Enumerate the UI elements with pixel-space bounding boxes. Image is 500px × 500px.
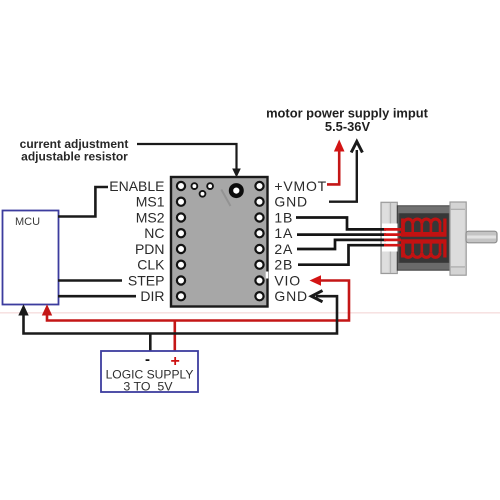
wire 1B to motor [296,218,386,230]
motor bottom coil side bars [401,240,404,258]
motor top coil winding ticks [404,224,440,233]
wire 2B to motor [298,245,386,265]
label: current adjustment adjustable resistor [20,137,129,164]
svg-text:STEP: STEP [128,273,165,289]
motor top coil side bars [401,219,404,237]
chip pins left column (pins 1-8) [177,182,185,300]
logic supply - lead (black) [149,334,152,352]
svg-text:VIO: VIO [274,273,301,289]
motor right flange [450,202,466,275]
label: motor power supply imput 5.5-36V [266,106,429,134]
svg-text:ENABLE: ENABLE [109,178,164,194]
wire 1A to motor [297,233,386,236]
svg-text:MS2: MS2 [136,210,165,226]
svg-text:3 TO 5V: 3 TO 5V [123,380,173,394]
wire GND to power supply (black) [329,150,357,202]
svg-text:-: - [145,351,150,368]
MCU box [3,211,59,305]
wire +VMOT to power supply (red) [327,149,339,185]
wire MCU to STEP [58,279,122,282]
stepper motor [381,202,497,275]
chip pins right column (pins 9-16) [255,182,263,300]
motor left flange [381,202,397,273]
motor inner lamination [399,213,449,262]
wire VIO to logic supply + (red) [47,281,349,321]
motor bottom coil scallop edge [404,253,440,258]
wire MCU to DIR [58,295,136,298]
left pin labels [109,178,165,304]
black arrowhead up (motor power -) [351,142,362,153]
svg-text:1B: 1B [274,210,293,226]
svg-text:MCU: MCU [15,216,40,228]
potentiometer slot mark [221,190,230,207]
svg-text:1A: 1A [274,225,293,241]
motor body [397,206,450,270]
logic supply + lead (red) [174,321,177,352]
wire MCU to ENABLE [58,187,108,217]
wire 2A to motor [297,240,386,249]
motor bottom coil winding ticks [404,243,440,253]
svg-text:5.5-36V: 5.5-36V [325,119,371,134]
potentiometer (current adjust) [231,185,242,196]
LOGIC SUPPLY box [101,351,198,392]
svg-text:CLK: CLK [137,257,165,273]
motor shaft [466,231,497,243]
black arrowhead up into MCU [18,304,28,315]
wire GND(bottom) to logic supply - (black) [24,296,338,333]
red arrowhead left into VIO [310,275,322,286]
chip via pads [192,183,214,197]
black arrowhead left into GND [312,291,323,302]
svg-text:adjustable resistor: adjustable resistor [21,150,128,164]
svg-text:PDN: PDN [135,241,165,257]
motor bottom coil top bar [401,239,446,243]
svg-text:+VMOT: +VMOT [274,178,327,194]
svg-text:GND: GND [274,288,308,304]
svg-text:NC: NC [144,225,164,241]
red arrowhead up (motor power +) [334,140,345,152]
svg-text:2B: 2B [274,257,293,273]
artifact line [0,312,500,314]
red arrowhead up into MCU [42,304,52,315]
svg-text:GND: GND [274,194,308,210]
motor lead wires (red stubs) [384,229,401,245]
driver chip U1 body [171,177,268,307]
arrowhead down to potentiometer [232,169,241,178]
motor top coil scallop edge [404,219,440,224]
right pin labels [274,178,327,304]
svg-text:2A: 2A [274,241,293,257]
chip right edge notch [266,272,269,279]
motor wire terminal slot [382,224,398,252]
wire from current-adjustment label to potentiometer [137,144,237,170]
svg-text:MS1: MS1 [136,194,165,210]
motor top coil base bar [401,232,446,237]
svg-text:DIR: DIR [140,288,164,304]
